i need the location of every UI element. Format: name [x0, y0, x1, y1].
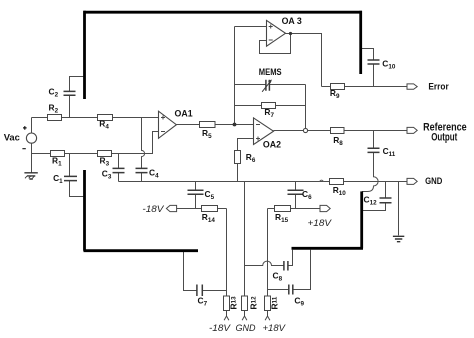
node OA3 output junction dot [289, 32, 292, 35]
arrow of MEMS variable capacitor [262, 80, 272, 92]
svg-text:OA1: OA1 [175, 109, 193, 119]
capacitor C11 [368, 148, 380, 152]
resistor R14 [202, 206, 218, 212]
resistor R6 [235, 151, 241, 164]
svg-text:Vac: Vac [4, 131, 20, 142]
resistor R11 [265, 296, 271, 311]
node OA2 output open circle [303, 128, 307, 132]
wire -18V vertical to R13 [226, 209, 228, 297]
wire +18V vertical to R11 [267, 209, 269, 297]
pin arrow below R12 [242, 311, 247, 321]
capacitor C6 [288, 190, 304, 194]
resistor R13 [224, 296, 230, 311]
svg-text:Error: Error [428, 82, 449, 92]
connector Reference output [407, 127, 417, 133]
wire OA2 + input through R6 to rail [238, 139, 254, 182]
resistor R7 [262, 103, 276, 109]
source Vac [22, 126, 36, 149]
pin arrow below R11 [265, 311, 270, 321]
wire small hop on rail left of R10 [320, 180, 324, 181]
svg-text:MEMS: MEMS [259, 67, 282, 77]
svg-text:Output: Output [431, 131, 457, 143]
wire C2 branch to shield [70, 77, 86, 118]
capacitor C4 [136, 168, 148, 172]
wire reference output line [308, 130, 407, 132]
wire OA2 output to node circle [273, 130, 303, 132]
shield enclosure bottom left edge [84, 249, 199, 252]
wire C7 branch shield to -18V vertical [184, 252, 227, 291]
wire ground rail [119, 181, 408, 183]
svg-text:+18V: +18V [308, 218, 333, 229]
wire MEMS feedback line [235, 84, 306, 86]
wire C5 branch rail to -18V line [195, 182, 197, 209]
wire OA3 feedback loop [260, 34, 291, 54]
wire error line [322, 86, 408, 88]
wire top line Vac to OA1 + input [32, 117, 159, 119]
wire C10 branch shield to error line [361, 49, 374, 87]
wire OA3 output down to error line [285, 34, 321, 87]
svg-text:+18V: +18V [263, 323, 287, 334]
wire -18V line [176, 208, 227, 210]
wire C6 branch rail to +18V line [295, 182, 297, 209]
capacitor C9 [289, 285, 293, 295]
capacitor C10 [368, 60, 380, 64]
svg-text:R11: R11 [270, 296, 280, 309]
capacitor C7 [197, 285, 202, 297]
wire C12 branch rail to shield [363, 182, 386, 211]
capacitor C3 [113, 168, 125, 172]
connector GND output [407, 178, 417, 184]
op-amp OA2 [254, 118, 274, 145]
svg-text:OA 3: OA 3 [282, 16, 302, 26]
resistor R12 [242, 296, 248, 311]
svg-text:GND: GND [425, 176, 443, 186]
connector -18V supply [166, 205, 176, 211]
wire OA1 output to junction A [176, 124, 234, 126]
resistor R10 [330, 179, 344, 185]
pin arrow below R13 [224, 311, 229, 321]
capacitor C1 [64, 176, 77, 180]
wire C9 branch to shield [268, 250, 311, 290]
connector +18V supply [320, 205, 330, 211]
capacitor MEMS variable [266, 80, 270, 91]
capacitor C5 [188, 190, 204, 194]
resistor R5 [200, 122, 216, 128]
svg-text:-18V: -18V [209, 323, 232, 334]
resistor R8 [331, 128, 345, 134]
ground at lower right [393, 236, 404, 241]
capacitor C8 [284, 261, 288, 271]
op-amp OA1 [159, 111, 177, 138]
wire +18V line [268, 208, 321, 210]
capacitor C12 [380, 198, 392, 203]
connector Error output [407, 84, 417, 89]
wire C11 branch with hop over rail to shield [362, 131, 378, 192]
wire rail to ground symbol [398, 182, 400, 236]
wire R7 feedback line [235, 105, 306, 107]
wire vertical junction A up to OA3 [234, 27, 236, 125]
resistor R4 [98, 115, 113, 121]
wire C3 branch to ground rail [118, 154, 120, 182]
svg-text:OA2: OA2 [263, 140, 281, 150]
resistor R2 [48, 115, 62, 121]
wire C4 branch with hop over bottom line [142, 118, 145, 182]
resistor R1 [51, 151, 65, 157]
shield enclosure top edge [84, 11, 363, 14]
wire feedback vertical at OA2 output [305, 85, 307, 129]
op-amp OA3 [267, 20, 286, 46]
wire Vac+ to top line [31, 118, 33, 134]
svg-text:-18V: -18V [142, 204, 165, 215]
shield enclosure right upper edge [359, 11, 362, 74]
shield enclosure bottom right edge [292, 247, 364, 250]
wire bottom line Vac to R3 then jog up to OA1 - input [32, 132, 159, 154]
ground below Vac [24, 173, 37, 179]
wire junction A to OA2 - input [235, 124, 254, 126]
shield enclosure left upper edge [83, 11, 86, 99]
resistor R15 [275, 206, 291, 212]
capacitor C2 [64, 91, 76, 95]
resistor R3 [98, 151, 112, 157]
svg-text:R12: R12 [249, 296, 259, 310]
wire Vac- down through node to ground [31, 143, 33, 172]
shield enclosure right lower edge [360, 191, 363, 248]
svg-text:R13: R13 [229, 296, 239, 310]
resistor R9 [331, 84, 345, 90]
wire C8 branch with hop to shield [245, 250, 293, 266]
svg-text:GND: GND [236, 323, 256, 334]
wire GND vertical rail to R12 [244, 182, 246, 297]
wire C1 branch to shield [70, 154, 86, 197]
wire OA3 + input [235, 26, 267, 28]
shield enclosure left lower edge [83, 170, 86, 251]
node A junction dot [233, 123, 237, 127]
